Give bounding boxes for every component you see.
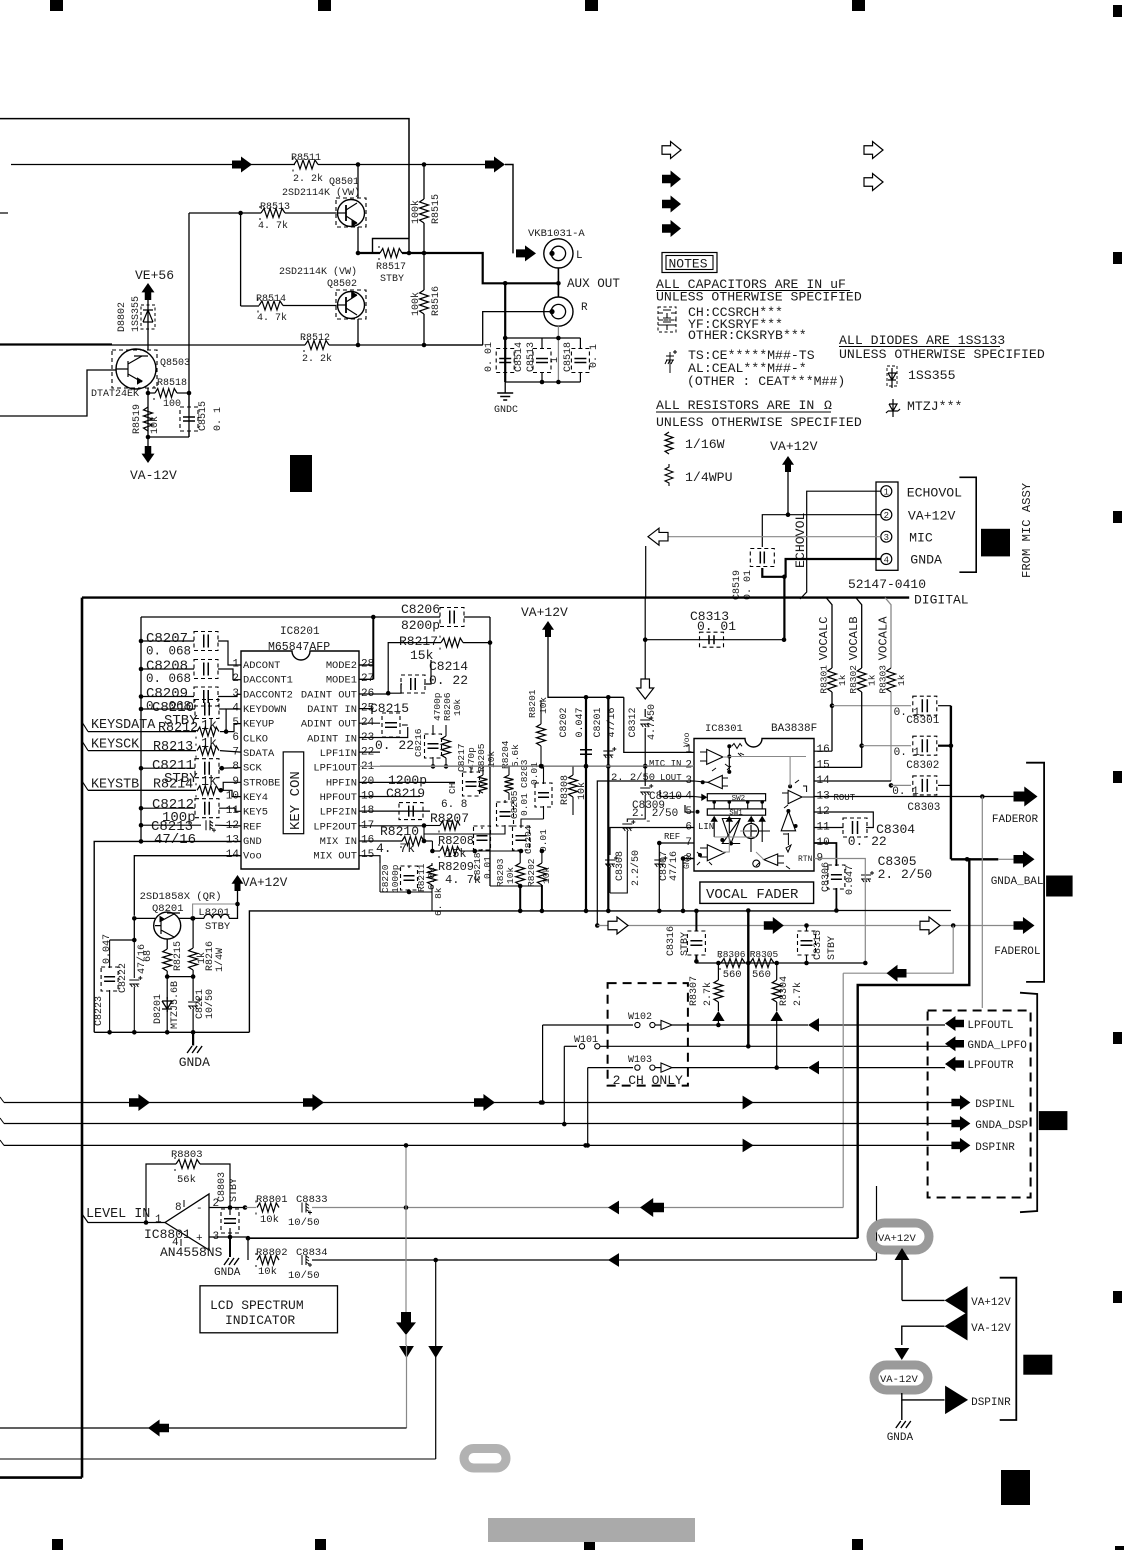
wire Q8503 emitter (147, 388, 149, 437)
wire plus input (209, 1236, 248, 1238)
wire resistor row 963 (696, 962, 865, 964)
svg-text:R8308: R8308 (560, 775, 571, 805)
wire capsule riser (876, 1186, 878, 1260)
svg-text:2SD1858X (QR): 2SD1858X (QR) (140, 891, 222, 903)
svg-text:1: 1 (884, 488, 889, 498)
wire pin4 (660, 790, 694, 797)
svg-text:0.047: 0.047 (845, 865, 856, 895)
wire R channel line (0, 344, 305, 346)
filled arrow marker 2 (662, 196, 681, 213)
svg-text:+: + (196, 1233, 203, 1245)
svg-text:1: 1 (550, 357, 561, 363)
connector block mark bottom right (1001, 1470, 1030, 1505)
op-amp IC8801 AN4558NS (165, 1194, 209, 1250)
svg-text:GNDA: GNDA (214, 1267, 241, 1279)
wire pin7 ref (659, 842, 694, 844)
svg-text:VA-12V: VA-12V (130, 468, 177, 483)
svg-text:2.7k: 2.7k (792, 982, 804, 1006)
resistor R8202 (537, 863, 546, 885)
wire thick fader step (858, 859, 970, 1238)
svg-text:C8215: C8215 (370, 701, 409, 716)
svg-text:DSPINR: DSPINR (971, 1397, 1011, 1409)
svg-text:-: - (645, 816, 652, 828)
svg-text:FADEROR: FADEROR (992, 814, 1039, 826)
svg-text:LPF2IN: LPF2IN (320, 807, 357, 819)
resistor R8207 (440, 821, 460, 830)
svg-text:DAINT IN: DAINT IN (307, 704, 357, 716)
wire thick center drop (747, 911, 749, 1047)
signal arrow into R8511 (232, 157, 252, 173)
wire pin5 (685, 805, 694, 812)
registration mark mid (290, 455, 312, 492)
wire R8303 to pin14 (890, 692, 892, 781)
svg-text:C8834: C8834 (296, 1247, 328, 1259)
svg-text:MTZJ***: MTZJ*** (907, 399, 962, 414)
note zener MTZJ symbol (886, 399, 900, 417)
svg-text:VA+12V: VA+12V (242, 876, 288, 890)
svg-text:ROUT: ROUT (834, 793, 856, 803)
wire emitter bus to jacks (424, 253, 558, 283)
wire W101 riser (563, 1046, 565, 1124)
svg-text:STROBE: STROBE (243, 777, 280, 789)
wire C8302 row (862, 745, 911, 747)
svg-text:4.7/50: 4.7/50 (646, 704, 658, 740)
wire to VA+12V flag (902, 1299, 945, 1301)
svg-text:C8303: C8303 (907, 802, 940, 814)
ground GNDC (504, 382, 506, 393)
wire VA-12V to capsule (902, 1326, 945, 1345)
VOCAL FADER label box (700, 882, 814, 903)
wire pin2 va12 (762, 515, 881, 547)
connector pin 4 (881, 554, 892, 565)
svg-text:2.7k: 2.7k (702, 982, 714, 1006)
svg-text:56k: 56k (177, 1174, 196, 1186)
connector block mark bottom (1023, 1355, 1052, 1375)
svg-text:C8312: C8312 (628, 707, 639, 737)
signal arrow GNDA_BAL (1014, 851, 1035, 868)
svg-text:C8803: C8803 (217, 1172, 228, 1202)
note electrolytic symbol (665, 350, 677, 373)
svg-text:VA+12V: VA+12V (878, 1233, 917, 1245)
bracket DSP connector (1020, 993, 1037, 1212)
wire rail up to long bus (249, 911, 835, 1032)
svg-text:0. 1: 0. 1 (213, 407, 224, 431)
wire to output arrow (424, 164, 487, 166)
wire faderol return riser (842, 973, 844, 1207)
ground GNDA opamp (229, 1236, 231, 1257)
svg-text:16: 16 (817, 744, 830, 756)
svg-text:W102: W102 (628, 1012, 652, 1023)
wire Q8201 base (134, 917, 155, 919)
open arrow marker 1 (662, 142, 681, 159)
svg-text:STBY: STBY (827, 936, 838, 960)
wire minus input (209, 1207, 245, 1209)
svg-text:R8202: R8202 (526, 858, 537, 887)
svg-text:2. 2k: 2. 2k (302, 353, 332, 365)
wire R8801 row (245, 1207, 256, 1209)
svg-text:LEVEL IN: LEVEL IN (86, 1207, 150, 1222)
wire Q8501 emitter (357, 227, 359, 253)
wire cap gnd bus vertical (950, 706, 952, 860)
wire gnd pin13 (141, 840, 241, 842)
wire jack sleeves (557, 268, 559, 297)
svg-text:VA+12V: VA+12V (971, 1297, 1011, 1309)
wire vocalc tap (826, 598, 832, 668)
svg-text:IC8801: IC8801 (144, 1227, 191, 1242)
wire C8303 row (891, 784, 911, 786)
power flag VA-12V right (945, 1312, 968, 1341)
wire c8312 upper segment (644, 598, 646, 679)
svg-text:0.01: 0.01 (519, 793, 530, 816)
wire dsp feed left drop (405, 1208, 407, 1313)
svg-text:RTN: RTN (798, 855, 813, 864)
svg-text:ADINT OUT: ADINT OUT (301, 719, 357, 731)
svg-text:8200p: 8200p (401, 618, 440, 633)
svg-text:VOCALA: VOCALA (877, 616, 891, 661)
svg-text:100k: 100k (410, 292, 422, 316)
wire pin17 lpf2out (359, 825, 424, 827)
svg-text:W103: W103 (628, 1055, 652, 1066)
signal arrow GNDA_LPFO (945, 1036, 964, 1051)
svg-text:21: 21 (361, 761, 375, 773)
svg-text:GND: GND (243, 836, 262, 848)
svg-text:ADCONT: ADCONT (243, 660, 280, 672)
svg-text:2SD2114K (VW): 2SD2114K (VW) (279, 266, 357, 278)
svg-text:C8308: C8308 (615, 851, 626, 881)
svg-text:REF: REF (664, 832, 680, 842)
internal resistor chain (728, 746, 730, 772)
svg-text:R8207: R8207 (430, 811, 469, 826)
svg-text:MIX IN: MIX IN (320, 836, 357, 848)
svg-text:-: - (196, 1203, 203, 1215)
svg-text:R8213: R8213 (153, 740, 193, 755)
svg-text:R8215: R8215 (173, 941, 184, 971)
svg-text:10k: 10k (452, 699, 463, 716)
wire keystb (88, 789, 196, 791)
svg-text:KEYUP: KEYUP (243, 719, 274, 731)
svg-text:VOCALB: VOCALB (847, 616, 861, 660)
wire from top net to R8513 (189, 212, 241, 214)
op-amp internal bottom left (700, 845, 725, 861)
svg-text:2.2/50: 2.2/50 (630, 850, 642, 886)
wire pin8 gnd (683, 859, 694, 912)
filled arrow dsp return (887, 965, 907, 982)
svg-text:0.047: 0.047 (575, 707, 586, 737)
svg-text:LPF1IN: LPF1IN (320, 748, 357, 760)
svg-text:REF: REF (243, 821, 262, 833)
svg-text:10/50: 10/50 (288, 1270, 320, 1282)
svg-text:0. 01: 0. 01 (743, 570, 754, 600)
switch SW1 (707, 809, 765, 815)
svg-text:47/16: 47/16 (668, 851, 680, 881)
wire c8220 r8211 gnd row (380, 891, 432, 893)
cap symbol note (658, 310, 676, 318)
svg-text:1/4W: 1/4W (214, 948, 226, 972)
svg-text:Ω: Ω (824, 398, 832, 413)
svg-text:KEYSDATA: KEYSDATA (91, 718, 156, 733)
op-amp internal right out (782, 790, 814, 803)
svg-text:HPFIN: HPFIN (326, 777, 357, 789)
svg-text:4. 7k: 4. 7k (258, 220, 288, 232)
gray label bar (488, 1518, 695, 1542)
wire base line Q8503 (0, 343, 112, 345)
capacitor C8220 1000p (404, 876, 415, 881)
note diode 1SS355 symbol (888, 368, 896, 388)
crossed fader triangles (722, 819, 740, 844)
wire R8511 to Q8501 (318, 164, 424, 166)
svg-text:68: 68 (143, 950, 154, 962)
svg-text:R8515: R8515 (431, 194, 442, 224)
capacitor C8205 0.01 (500, 812, 511, 817)
connector pin 3 (881, 531, 892, 542)
svg-text:ECHOVOL: ECHOVOL (907, 486, 962, 501)
svg-text:0. 22: 0. 22 (429, 673, 468, 688)
switch SW2 (707, 794, 765, 801)
svg-text:DAINT OUT: DAINT OUT (301, 689, 357, 701)
svg-text:(OTHER : CEAT***M##): (OTHER : CEAT***M##) (687, 374, 845, 389)
svg-text:1000p: 1000p (390, 864, 401, 893)
svg-text:C8201: C8201 (593, 707, 604, 737)
open arrow marker right 2 (864, 174, 883, 191)
svg-text:VA-12V: VA-12V (880, 1374, 919, 1386)
wire plus to R8802 row (247, 1237, 249, 1260)
op-amp internal mic amp (700, 749, 723, 764)
internal gray routing (714, 757, 764, 860)
svg-text:1/4WPU: 1/4WPU (685, 470, 732, 485)
wire R8513 left net (241, 212, 261, 214)
svg-text:R8201: R8201 (527, 689, 538, 718)
svg-text:LPF2OUT: LPF2OUT (313, 821, 357, 833)
wire vocala tap (885, 598, 891, 668)
svg-text:NOTES: NOTES (669, 257, 708, 272)
svg-text:C8518: C8518 (563, 342, 574, 372)
svg-text:10k: 10k (486, 751, 497, 768)
NOTES box (662, 253, 717, 273)
svg-text:L: L (576, 250, 583, 262)
svg-text:SW1: SW1 (729, 810, 743, 818)
wire mic line pin3 (668, 536, 881, 538)
svg-text:KEY CON: KEY CON (288, 771, 304, 830)
wire dsp feed bus riser (405, 1145, 407, 1207)
wire long rail continue (835, 910, 951, 912)
svg-text:1: 1 (685, 744, 692, 756)
svg-text:1SS355: 1SS355 (131, 296, 142, 332)
wire pin18 lpf2in (359, 810, 430, 812)
svg-text:C8301: C8301 (906, 715, 939, 727)
svg-text:Q8501: Q8501 (329, 177, 359, 188)
svg-text:DACCONT2: DACCONT2 (243, 689, 293, 701)
svg-text:SDATA: SDATA (243, 748, 275, 760)
wire mic in line (380, 765, 694, 767)
svg-text:ALL RESISTORS ARE IN: ALL RESISTORS ARE IN (656, 398, 814, 413)
svg-text:R8307: R8307 (689, 976, 700, 1006)
svg-text:M65847AFP: M65847AFP (268, 641, 330, 654)
svg-text:R: R (581, 302, 588, 314)
wire pin4 gnda (786, 559, 881, 577)
svg-text:VOCAL FADER: VOCAL FADER (706, 887, 799, 903)
svg-text:1: 1 (155, 1214, 162, 1226)
svg-text:FADEROL: FADEROL (994, 946, 1040, 958)
svg-text:CLKO: CLKO (243, 733, 268, 745)
svg-text:R8517: R8517 (376, 262, 406, 273)
RCA jack L (516, 245, 536, 261)
svg-text:LPF1OUT: LPF1OUT (313, 763, 357, 775)
svg-text:2SD2114K (VW): 2SD2114K (VW) (282, 187, 360, 199)
svg-text:C8302: C8302 (906, 760, 939, 772)
open arrow marker right 1 (864, 142, 883, 159)
wire y886 link (490, 885, 542, 887)
wire gnda bal thick (951, 858, 998, 860)
svg-text:4. 7k: 4. 7k (257, 312, 287, 324)
svg-text:AN4558NS: AN4558NS (160, 1245, 223, 1260)
svg-text:UNLESS OTHERWISE SPECIFIED: UNLESS OTHERWISE SPECIFIED (656, 415, 862, 430)
connector block mark BAL (1046, 876, 1073, 897)
svg-text:0. 22: 0. 22 (375, 738, 414, 753)
wire Q8502 emitter (357, 319, 359, 345)
wire down to L jack (505, 165, 513, 254)
wire W103 riser (587, 1068, 589, 1146)
note resistor 1/4WPU symbol (665, 464, 673, 486)
svg-text:DIGITAL: DIGITAL (914, 593, 969, 608)
note resistor 1/16W symbol (665, 432, 673, 454)
svg-text:15: 15 (361, 849, 374, 861)
LCD SPECTRUM INDICATOR box (200, 1286, 338, 1333)
svg-text:Q8502: Q8502 (327, 279, 357, 290)
svg-text:VE+56: VE+56 (135, 268, 174, 283)
bus DIGITAL (82, 596, 909, 598)
svg-text:GNDA: GNDA (887, 1432, 914, 1444)
wire left cap bus (140, 617, 142, 841)
svg-text:R8208: R8208 (438, 834, 474, 848)
svg-text:0.01: 0.01 (538, 829, 549, 852)
svg-text:47/16: 47/16 (154, 832, 196, 848)
svg-text:100: 100 (163, 399, 181, 410)
wire pin15 mix out (359, 856, 380, 863)
wire c8203 bottom row (424, 828, 505, 834)
power capsule VA+12V (871, 1223, 929, 1250)
svg-text:C8513: C8513 (526, 342, 537, 372)
dashed box 2 CH ONLY (608, 983, 688, 1086)
svg-text:LIN: LIN (698, 822, 714, 832)
svg-text:1k: 1k (896, 674, 907, 686)
bus DSPINR (4, 1144, 952, 1146)
svg-text:6. 8: 6. 8 (441, 799, 467, 811)
svg-text:10k: 10k (258, 1266, 277, 1278)
empty gray capsule (464, 1449, 506, 1469)
connector pin 2 (881, 509, 892, 520)
connector 52147-0410 body (876, 482, 898, 570)
wire capsule up arrow (895, 1248, 910, 1260)
svg-text:SW2: SW2 (732, 795, 746, 803)
svg-text:UNLESS OTHERWISE SPECIFIED: UNLESS OTHERWISE SPECIFIED (839, 347, 1045, 362)
wire KEYS input to Q8503 (0, 370, 116, 416)
svg-text:VOCALC: VOCALC (817, 616, 831, 660)
op-amp internal rtn upward (781, 811, 795, 834)
svg-text:STBY: STBY (229, 1178, 240, 1202)
arrows on DSPINL bus (129, 1094, 150, 1111)
svg-text:STBY: STBY (380, 274, 404, 285)
wire R8801 line right (312, 1207, 843, 1209)
KEY CON box (283, 752, 304, 834)
wire gnda bottom (901, 1400, 903, 1420)
wire dspinr bottom (902, 1393, 945, 1400)
svg-text:GNDA_BAL: GNDA_BAL (991, 876, 1044, 888)
resistor R8203 (516, 863, 525, 885)
signal arrow AUX L (485, 157, 505, 173)
wire dsp feed right drop (435, 1260, 437, 1345)
svg-text:8: 8 (175, 1202, 182, 1214)
resistor R8201 vertical (537, 724, 546, 746)
wire Q8201 bottom rail (94, 1031, 249, 1033)
svg-text:6. 8k: 6. 8k (433, 887, 444, 916)
big box bottom stub (0, 1476, 82, 1479)
svg-text:MIX OUT: MIX OUT (313, 851, 357, 863)
svg-text:R8210: R8210 (380, 824, 419, 839)
wire keysdata (88, 731, 196, 733)
svg-text:C8202: C8202 (559, 707, 570, 737)
svg-text:C8223: C8223 (94, 996, 105, 1026)
svg-text:MIC IN: MIC IN (649, 759, 681, 769)
wire L-channel input line (11, 164, 295, 166)
wire top feed line (0, 119, 409, 239)
wire gnda down (783, 577, 785, 639)
svg-text:0. 1: 0. 1 (894, 747, 921, 759)
svg-text:VA+12V: VA+12V (521, 605, 568, 620)
wire mic arrow hang (645, 546, 647, 597)
wire W102 riser (542, 1025, 544, 1103)
svg-text:2. 2/50: 2. 2/50 (632, 808, 678, 820)
svg-text:KEYDOWN: KEYDOWN (243, 704, 287, 716)
wire C8222 branch (133, 918, 135, 940)
svg-text:15: 15 (817, 760, 830, 772)
svg-text:IC8201: IC8201 (280, 626, 320, 638)
svg-text:0. 22: 0. 22 (848, 834, 887, 849)
wire gnda bal to arrow (998, 858, 1013, 860)
svg-text:C8214: C8214 (429, 659, 468, 674)
svg-text:GNDA_LPFO: GNDA_LPFO (967, 1040, 1027, 1052)
wire vocalb tap (856, 598, 862, 668)
pin4 arrow into SW2 (701, 794, 707, 801)
svg-text:DSPINR: DSPINR (975, 1142, 1015, 1154)
svg-text:10/50: 10/50 (204, 989, 216, 1019)
wire pin26 daint out (359, 693, 388, 695)
capacitor lpf2 small (409, 806, 414, 817)
wire R8304 arrow (776, 1002, 778, 1011)
svg-text:LPFOUTR: LPFOUTR (967, 1060, 1014, 1072)
svg-text:C8306: C8306 (821, 862, 832, 892)
svg-text:DTAT24EK: DTAT24EK (91, 389, 139, 400)
svg-text:2: 2 (884, 511, 889, 521)
wire pin19 hpfout (359, 796, 420, 798)
svg-text:1k: 1k (837, 674, 848, 686)
svg-text:R8803: R8803 (171, 1149, 203, 1161)
svg-text:HPFOUT: HPFOUT (320, 792, 357, 804)
signal arrow GNDA_DSP (951, 1116, 970, 1131)
power capsule VA-12V (874, 1365, 928, 1390)
wire feedback loop (146, 1164, 176, 1223)
svg-text:C8216: C8216 (413, 728, 424, 757)
svg-text:3: 3 (884, 533, 889, 543)
connector block mark (981, 529, 1010, 557)
bus DSPINL (4, 1102, 952, 1104)
svg-text:C8514: C8514 (514, 342, 525, 372)
wire cap bank bottom rail (505, 381, 580, 383)
svg-text:Q8503: Q8503 (160, 358, 190, 369)
svg-text:C8222: C8222 (118, 963, 129, 993)
svg-text:UNLESS OTHERWISE SPECIFIED: UNLESS OTHERWISE SPECIFIED (656, 290, 862, 305)
svg-text:0. 068: 0. 068 (146, 672, 191, 686)
resistor R8517 STBY (373, 239, 410, 254)
